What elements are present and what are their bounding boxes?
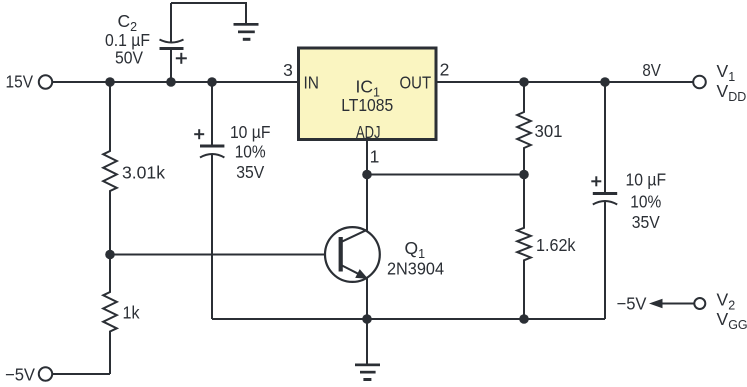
svg-text:35V: 35V	[236, 162, 264, 182]
svg-text:15V: 15V	[6, 72, 34, 92]
svg-text:8V: 8V	[642, 60, 661, 80]
svg-text:1.62k: 1.62k	[536, 235, 576, 255]
terminal V1 output	[693, 76, 706, 89]
svg-text:−5V: −5V	[617, 294, 647, 314]
wire: 1k to -5V terminal	[52, 373, 110, 375]
node: junction rail / output cap	[600, 77, 610, 87]
wire: ADJ junction to collector	[366, 175, 368, 231]
resistor 301	[517, 82, 531, 175]
svg-text:3: 3	[283, 60, 293, 80]
node: divider junction	[519, 170, 529, 180]
wire: emitter to bottom rail	[366, 279, 368, 320]
svg-text:1: 1	[370, 147, 380, 167]
node: junction rail / input cap	[207, 77, 217, 87]
wire: C2 to top ground	[171, 3, 246, 24]
node: junction rail / 3.01k	[105, 77, 115, 87]
wire: output rail from OUT pin 2	[438, 81, 694, 83]
ground (top)	[234, 23, 259, 41]
terminal: -5V supply	[39, 367, 52, 380]
wire: ADJ pin to junction	[366, 141, 368, 175]
terminal: 15V input	[39, 75, 52, 88]
terminal V2	[694, 298, 705, 309]
svg-text:2: 2	[440, 60, 450, 80]
capacitor 10uF output	[591, 82, 617, 319]
wire: base of Q1	[110, 254, 325, 256]
svg-text:3.01k: 3.01k	[122, 163, 165, 183]
resistor 1k	[103, 255, 117, 375]
capacitor C2	[160, 3, 187, 82]
wire: bottom rail	[212, 318, 605, 320]
node: junction 3.01k / 1k / base	[105, 250, 115, 260]
wire: ADJ feedback to divider	[367, 174, 524, 176]
capacitor 10uF input	[194, 82, 224, 319]
svg-text:1k: 1k	[123, 303, 140, 323]
node: junction rail / 1.62k	[519, 314, 529, 324]
arrow to -5V net	[649, 299, 694, 308]
node: junction rail / emitter / ground	[362, 314, 372, 324]
svg-text:10 µF: 10 µF	[230, 122, 271, 142]
svg-text:IN: IN	[304, 72, 320, 92]
svg-text:LT1085: LT1085	[341, 95, 393, 115]
svg-text:ADJ: ADJ	[356, 122, 381, 142]
resistor 3.01k	[103, 82, 117, 255]
svg-text:−5V: −5V	[5, 365, 35, 385]
transistor Q1	[325, 227, 380, 282]
node: ADJ junction	[362, 170, 372, 180]
node: junction rail / 301	[519, 77, 529, 87]
svg-text:10 µF: 10 µF	[626, 170, 667, 190]
wire: 15V input rail to IC IN pin 3	[52, 81, 298, 83]
svg-text:301: 301	[535, 121, 563, 141]
IC1 LT1085 body	[299, 48, 437, 140]
resistor 1.62k	[517, 175, 531, 320]
svg-text:2N3904: 2N3904	[387, 259, 444, 279]
svg-text:50V: 50V	[115, 48, 143, 68]
svg-text:10%: 10%	[235, 141, 266, 161]
svg-text:OUT: OUT	[400, 72, 432, 92]
svg-text:10%: 10%	[630, 192, 661, 212]
ground (bottom)	[355, 319, 380, 381]
svg-text:VDD: VDD	[717, 81, 747, 104]
node: junction rail / C2	[166, 77, 176, 87]
svg-text:35V: 35V	[632, 212, 660, 232]
